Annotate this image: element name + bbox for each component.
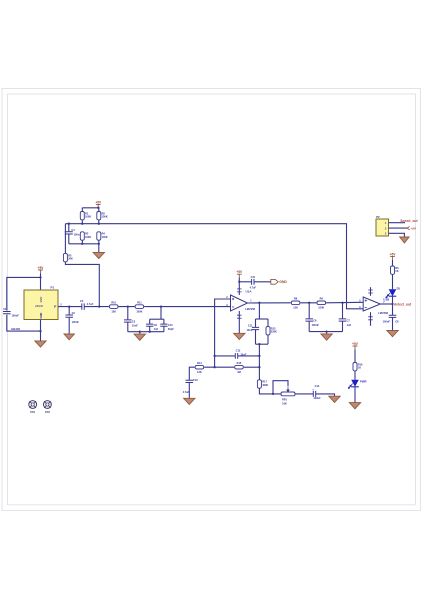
svg-text:C2: C2 [72,311,76,315]
svg-text:1: 1 [250,300,252,303]
svg-text:C9: C9 [154,323,158,327]
ground filter stage [134,334,145,340]
wire C3 to R10 [84,306,109,308]
wire feedback loop stem [258,303,260,319]
wire R5 top stub [64,224,66,254]
wire R2 bottom to mid rail [98,220,100,224]
wire R9 to U1B noninverting input [326,301,363,304]
svg-text:100nF: 100nF [72,320,80,324]
svg-text:C5: C5 [132,319,136,323]
svg-text:100nF: 100nF [383,320,391,324]
node feedback bottom [258,343,260,345]
resistor R11 100K [135,301,144,314]
wire C15 to GND port [254,281,271,283]
wire C2 stub [68,307,70,315]
node U1A output junction [258,302,260,304]
node bottom rail R4 [98,243,100,245]
capacitor C14 100uF [313,391,315,397]
wire R1 bottom to mid rail [81,220,83,224]
svg-text:C3: C3 [80,299,84,303]
svg-text:R9: R9 [320,297,324,301]
svg-text:RP1: RP1 [282,398,288,402]
svg-text:+5V: +5V [95,200,102,204]
svg-text:LMV358: LMV358 [378,311,388,315]
ground C8 [387,331,398,337]
wire LED D2 to ground [354,387,356,403]
wire C5 stub [127,307,129,320]
svg-text:1nF: 1nF [154,327,159,331]
svg-text:100n: 100n [74,232,80,236]
node +5V rail junction [97,207,99,209]
capacitor C10 30pF [160,324,167,326]
resistor R13 220K [266,327,277,336]
wire R13 lower leg [267,335,269,344]
potentiometer RP1 10K [281,386,295,405]
svg-text:FID1: FID1 [30,412,36,414]
node filter ground rail C5 [139,331,141,333]
wire C9 lower leg [149,326,151,331]
resistor R2 100K [97,211,108,220]
wire C7 stub [342,303,344,319]
wire C2 to ground [68,317,70,334]
wire output node to C8 [392,304,394,315]
wire C4 bottom stub [68,234,70,244]
power +5V U1A [236,270,243,278]
ground P2 [400,237,410,243]
resistor R16 1K [353,362,363,371]
svg-text:100K: 100K [136,310,142,314]
ground C13 [184,398,195,404]
wire U1A V- stub [238,311,240,333]
svg-text:1K: 1K [358,366,361,370]
node R14/R15 junction [213,366,215,368]
resistor R4 100K [97,232,108,241]
wire C10 upper leg [163,319,165,324]
node C12 left [213,355,215,357]
wire filter ground rail [128,331,164,333]
svg-text:100uF: 100uF [313,396,321,400]
svg-text:Speed_out: Speed_out [400,219,418,223]
power +5V HB100 [38,266,45,274]
wire feedback loop bottom rail [256,343,269,345]
wire R6 to LED D3 [392,274,394,289]
resistor R5 20K [63,253,73,262]
node C6 junction [308,302,310,304]
wire interstage ground stub [326,332,328,334]
svg-text:LMV358: LMV358 [245,307,255,311]
wire R8 to R9 [300,302,316,304]
svg-text:C10: C10 [168,323,173,327]
svg-text:GND: GND [279,280,287,284]
svg-text:detect_out: detect_out [394,302,412,306]
node C12 bus [258,355,260,357]
node RP1 wiper tie [272,393,274,395]
wire P2 pin2 +5V [389,227,408,229]
capacitor C3 4.7uF series [82,303,84,309]
wire C1 bottom to GND rail [7,315,41,331]
ground PWR LED [349,403,360,409]
node mid rail R1/R3 [81,223,83,225]
resistor R17 400K [257,380,268,388]
node C5 junction [127,305,129,307]
node C9/C10 junction [160,305,162,307]
svg-text:C8: C8 [395,320,399,324]
capacitor C15 4.7uF [252,279,254,285]
svg-text:1K: 1K [395,269,398,273]
wire C12 to bus [238,355,260,357]
svg-text:R14: R14 [197,361,202,365]
wire R14 R15 row [204,366,234,368]
node interstage ground [325,330,327,332]
wire R17 to RP1 [259,388,281,394]
ground interstage [321,334,332,340]
wire divider reference to U1B inverting input [99,224,363,309]
power port GND flag [271,279,288,284]
power port +5V arrow P2 [407,226,417,230]
node U1A supply junction [238,281,240,283]
module P1 HB100 body [24,286,58,320]
svg-text:10nF: 10nF [246,328,252,332]
svg-text:HB100: HB100 [11,327,20,331]
capacitor C12 10nF [235,353,237,359]
power +5V divider top [95,200,102,208]
svg-text:C7: C7 [347,318,351,322]
wire +5V to VCC pin [40,273,42,290]
svg-text:IF: IF [54,305,57,309]
node IF C2 junction [68,305,70,307]
wire C12 branch [215,355,236,357]
wire C6 stub [308,303,310,319]
wire C6 C7 ground rail [309,331,342,333]
wire R14 left to C13 [189,367,194,380]
svg-text:2: 2 [226,296,228,299]
svg-text:10nF: 10nF [132,323,138,327]
svg-text:C4: C4 [71,228,75,232]
svg-text:4.7uF: 4.7uF [183,390,190,394]
svg-text:+5V: +5V [410,226,417,230]
resistor R15 1M [235,361,244,374]
svg-text:R10: R10 [111,301,116,305]
capacitor C6 100nF [305,319,313,321]
node R15 bus [258,366,260,368]
capacitor C1 100nF [3,312,11,314]
svg-text:400K: 400K [262,383,268,387]
wire C9/C10 top loop [160,307,162,320]
svg-text:R15: R15 [237,361,242,365]
ground HB100 [35,341,46,347]
svg-text:FID2: FID2 [45,412,51,414]
capacitor C4 100n branch upper stub [68,224,70,232]
mounting hole FID1 [29,401,37,415]
resistor R10 12K [109,301,118,314]
svg-text:100K: 100K [85,215,91,219]
svg-text:20K: 20K [68,257,73,261]
ground C14 [329,396,340,402]
wire RP1 wiper loop [273,381,288,394]
wire C5 bottom [127,322,129,332]
node filter ground rail C9 [149,331,151,333]
wire C10 lower leg [163,326,165,331]
ground U1A [234,333,245,339]
wire R2 top stub [98,208,100,212]
wire C8 to ground [392,317,394,330]
resistor R1 100K [80,211,91,220]
svg-text:PWR: PWR [360,380,367,384]
mounting hole FID2 [44,401,52,415]
svg-text:12K: 12K [111,310,116,314]
node mid rail R2/R4 to long wire [98,223,100,225]
wire R5 bottom to bias node [65,262,99,307]
capacitor C4 100n [65,232,73,234]
capacitor C11 10nF [252,327,259,329]
wire divider ground stub [98,244,100,253]
U1A V- tick marks [237,315,242,318]
wire P2 pin3 to ground [389,233,405,237]
svg-text:U1A: U1A [246,289,253,293]
wire R1 top stub [81,208,83,212]
sheet outer border frame [2,89,421,511]
power +5V PWR LED [352,342,359,350]
svg-text:VCC: VCC [39,297,43,303]
svg-text:GND: GND [39,313,43,319]
wire R3 bottom stub [81,240,83,244]
svg-text:+5V: +5V [38,266,45,270]
wire +5V to R6 [392,260,394,266]
svg-text:1uF: 1uF [347,323,352,327]
svg-text:12K: 12K [197,370,202,374]
svg-text:+: + [312,388,314,392]
svg-text:HB100: HB100 [35,304,44,308]
U1B V+ stub with ticks [370,287,372,296]
sheet inner border frame [8,94,416,505]
svg-text:C6: C6 [313,318,317,322]
svg-text:100nF: 100nF [12,314,20,318]
wire supply to C15 [239,281,251,283]
svg-text:+5V: +5V [390,252,397,256]
svg-text:100K: 100K [102,235,108,239]
svg-text:220K: 220K [271,330,277,334]
resistor R8 12K [291,297,300,310]
wire feedback bus down [258,344,260,380]
connector P2 body [376,215,389,236]
wire C7 bottom [342,321,344,332]
wire R16 to LED D2 [354,371,356,380]
svg-text:100K: 100K [102,215,108,219]
wire P2 pin1 Speed_out [389,222,406,224]
wire R4 bottom stub [98,240,100,244]
svg-text:C12: C12 [236,349,241,353]
resistor R14 12K [195,361,204,374]
wire R13 upper leg [267,319,269,327]
wire C13 to ground [188,383,190,399]
svg-text:C11: C11 [248,324,253,328]
svg-text:12K: 12K [293,306,298,310]
node C7 junction [341,302,343,304]
capacitor C8 100nF [389,315,397,317]
wire U1A output [248,302,291,304]
wire C9 upper leg [149,319,151,324]
svg-text:100K: 100K [85,235,91,239]
node bottom rail R3 [81,243,83,245]
U1A V+ tick marks [237,289,242,292]
wire RP1 to C14 [295,393,313,395]
wire GND pin stub [40,320,42,341]
node HB100 ground junction [39,330,41,332]
wire C11 upper leg [255,319,257,327]
wire +5V rail to R1/R2 tops [82,207,99,209]
svg-text:100K: 100K [318,306,324,310]
capacitor C2 100nF [65,315,73,317]
wire VCC junction to C1 loop [7,277,41,310]
wire R10 to R11 [119,306,135,308]
svg-text:C14: C14 [315,384,320,388]
svg-text:4.7uF: 4.7uF [87,302,94,306]
ground divider [93,252,104,258]
resistor R9 100K [317,297,326,310]
svg-text:+5V: +5V [236,270,243,274]
wire U1A V+ stub [238,282,240,295]
wire C14 to ground [316,394,335,396]
svg-text:P2: P2 [376,215,380,219]
svg-text:+5V: +5V [352,342,359,346]
capacitor C7 1uF [339,319,347,321]
wire IF output [58,306,82,308]
wire C11 lower leg [255,330,257,345]
wire mid rail [65,223,98,225]
svg-text:P1: P1 [51,286,55,290]
wire +5V to R16 [354,349,356,362]
capacitor C5 10nF [124,320,132,322]
wire U1B output [381,303,393,305]
op-amp U1B LMV358 [363,297,380,311]
svg-text:2: 2 [60,303,62,306]
U1B V- stub with ticks [370,312,372,326]
power +5V R6 [390,252,397,259]
svg-text:100nF: 100nF [312,323,320,327]
svg-text:C1: C1 [3,307,7,311]
node bias injection [98,305,100,307]
capacitor C13 4.7uF [186,380,194,382]
capacitor C9 1nF [146,324,153,326]
wire C6 bottom [308,321,310,332]
LED D2 PWR [348,380,359,389]
wire filter ground stub [139,332,141,334]
wire R11 to op-amp input [144,306,230,308]
wire feedback loop top rail [256,318,269,320]
wire R15 to bus [244,366,260,368]
svg-text:4.7uF: 4.7uF [250,287,257,290]
op-amp U1A LMV358 [231,295,248,311]
svg-text:R8: R8 [294,297,298,301]
node VCC junction [39,276,41,278]
wire LED D3 to output node [392,296,394,304]
svg-text:C15: C15 [251,276,256,279]
wire U1A feedback to inverting input [215,299,231,367]
svg-text:D3: D3 [397,286,401,290]
svg-text:1M: 1M [237,370,241,374]
resistor R3 100K [80,232,91,241]
svg-text:C13: C13 [193,378,198,382]
node detect_out [391,303,393,305]
resistor R6 1K [391,266,400,275]
svg-text:10K: 10K [282,402,287,406]
svg-text:30pF: 30pF [168,327,174,331]
node mid rail C4 [68,223,70,225]
wire bottom rail of divider [69,243,99,245]
svg-text:R11: R11 [137,301,142,305]
LED D3 [386,289,397,298]
ground C2 [64,334,74,340]
